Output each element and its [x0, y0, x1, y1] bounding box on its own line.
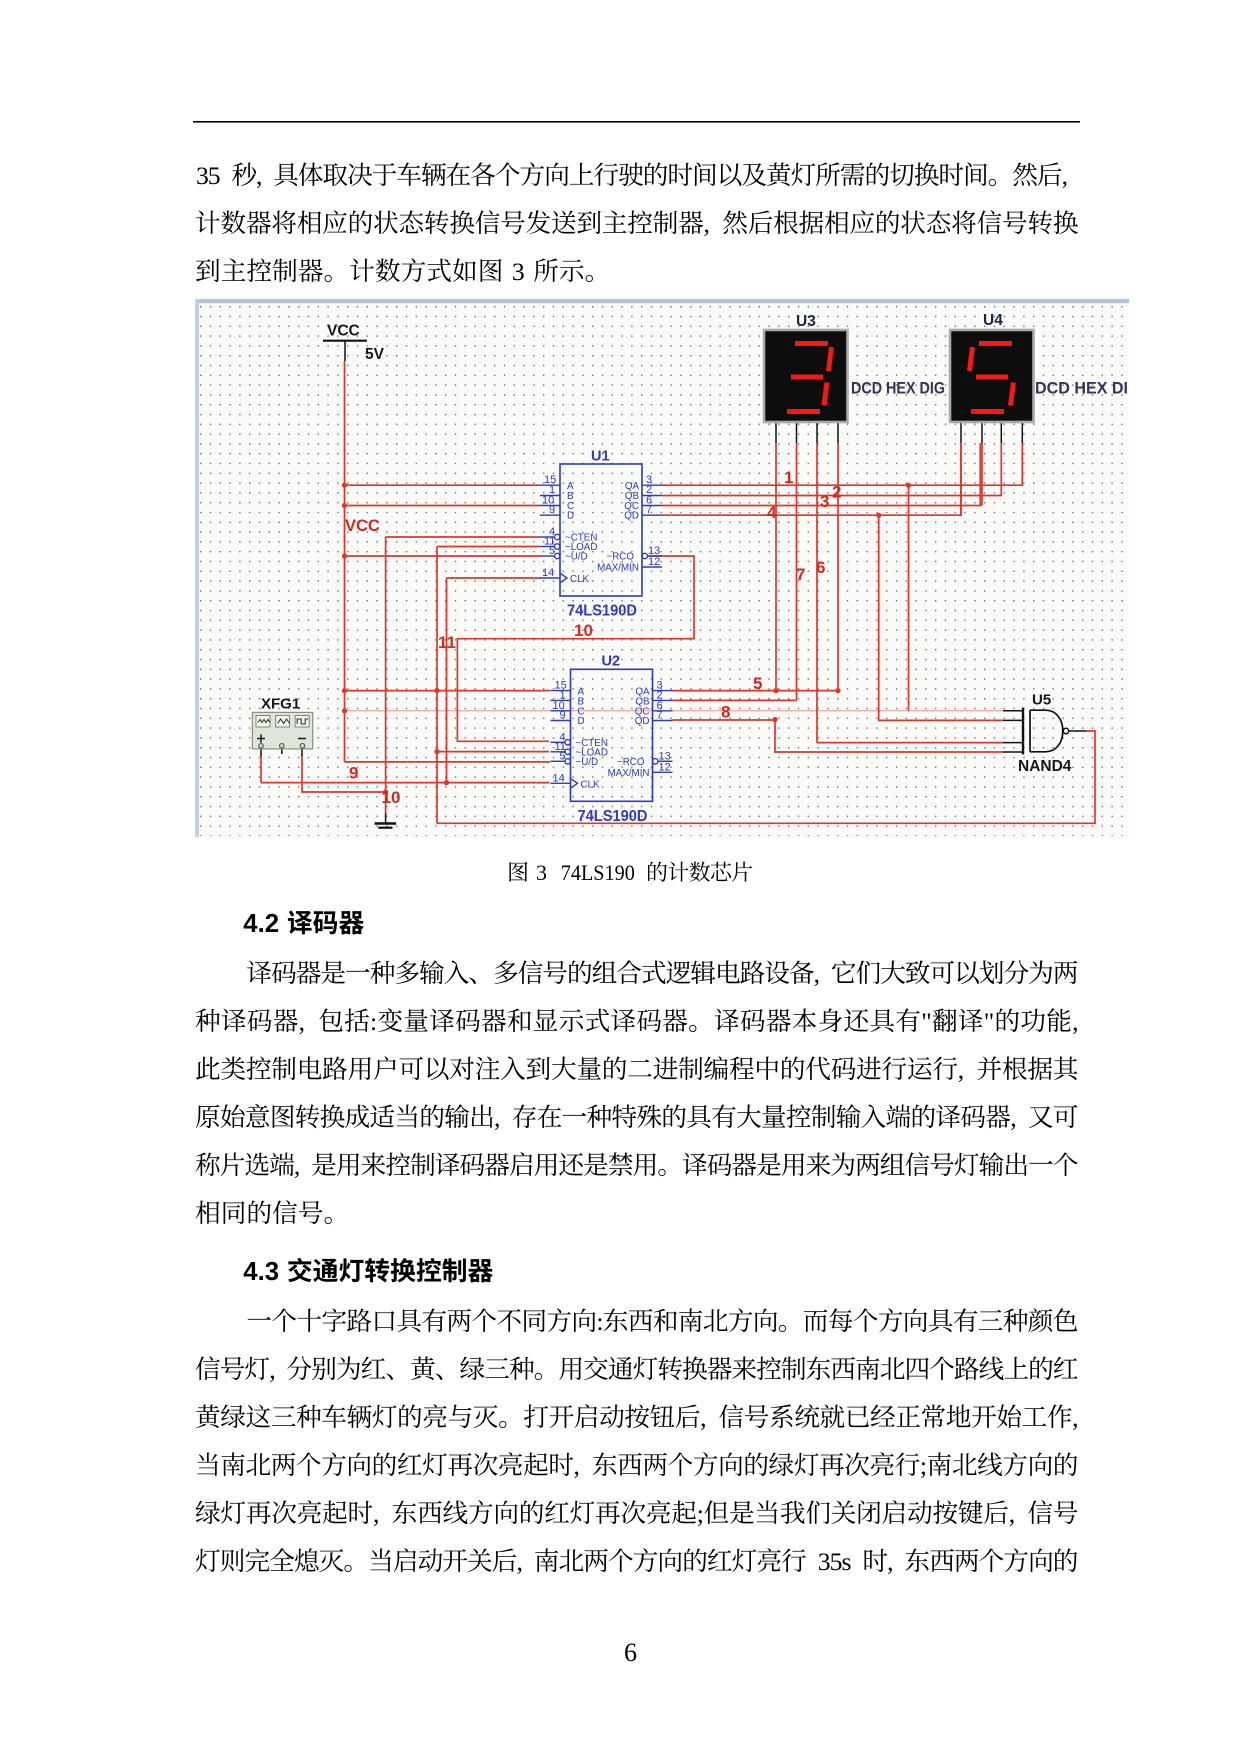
svg-text:D: D [567, 511, 574, 522]
svg-text:3: 3 [536, 860, 547, 885]
svg-text:MAX/MIN: MAX/MIN [597, 563, 639, 574]
svg-text:,: , [1072, 1007, 1078, 1036]
svg-text:1: 1 [784, 468, 793, 487]
svg-text:,: , [574, 1451, 580, 1480]
svg-text:5V: 5V [365, 346, 385, 363]
svg-text:;: ; [920, 1451, 927, 1480]
svg-text:74LS190D: 74LS190D [578, 808, 648, 825]
svg-text:,: , [1009, 1499, 1015, 1528]
svg-text:DCD HEX DI: DCD HEX DI [1035, 379, 1128, 398]
svg-text:U1: U1 [591, 449, 610, 465]
svg-text::: : [596, 1307, 603, 1336]
svg-text:7: 7 [796, 565, 805, 584]
svg-text:DCD HEX DIG: DCD HEX DIG [851, 379, 945, 398]
svg-text:14: 14 [553, 772, 565, 784]
svg-text:8: 8 [721, 703, 730, 722]
svg-text:~U/D: ~U/D [565, 552, 588, 563]
svg-text:,: , [373, 1499, 379, 1528]
svg-text:~RCO: ~RCO [617, 757, 645, 768]
svg-text:,: , [517, 1547, 523, 1576]
svg-text:MAX/MIN: MAX/MIN [608, 768, 650, 779]
svg-text:5: 5 [753, 674, 762, 693]
svg-text:~U/D: ~U/D [576, 757, 599, 768]
svg-text:3: 3 [265, 1258, 279, 1286]
svg-text:,: , [704, 209, 710, 238]
svg-text:4: 4 [243, 910, 258, 938]
svg-text:QD: QD [635, 716, 650, 727]
svg-text:.: . [258, 1258, 265, 1286]
svg-text:U2: U2 [602, 654, 621, 670]
svg-text:,: , [1072, 1403, 1078, 1432]
svg-text:D: D [578, 716, 585, 727]
svg-text:4: 4 [767, 503, 777, 522]
svg-text:CLK: CLK [570, 574, 590, 585]
svg-text:,: , [1062, 161, 1068, 190]
svg-text:2: 2 [265, 910, 279, 938]
svg-text:9: 9 [560, 710, 566, 722]
svg-text:5: 5 [549, 545, 555, 557]
svg-text:,: , [700, 1403, 706, 1432]
svg-text:QD: QD [624, 511, 639, 522]
svg-text:~RCO: ~RCO [607, 552, 635, 563]
svg-text:U5: U5 [1032, 692, 1051, 709]
svg-text:5: 5 [560, 750, 566, 762]
svg-text:,: , [294, 1151, 300, 1180]
svg-text:10: 10 [382, 788, 401, 807]
svg-text:,: , [299, 1007, 305, 1036]
svg-text:s: s [842, 1547, 852, 1576]
svg-text:9: 9 [549, 504, 555, 516]
svg-text:,: , [494, 1103, 500, 1132]
svg-text:,: , [958, 1055, 964, 1084]
svg-text:VCC: VCC [327, 323, 360, 340]
svg-text:U3: U3 [796, 313, 816, 330]
svg-text:4: 4 [243, 1258, 258, 1286]
svg-text:.: . [258, 910, 265, 938]
svg-text:,: , [814, 959, 820, 988]
svg-text:,: , [1010, 1103, 1016, 1132]
svg-text:10: 10 [574, 621, 593, 640]
svg-text:74LS190D: 74LS190D [567, 603, 637, 620]
svg-text:7: 7 [657, 710, 663, 722]
svg-text:3: 3 [512, 257, 525, 286]
svg-text:,: , [256, 161, 262, 190]
svg-text:": " [984, 1007, 995, 1036]
svg-text:CLK: CLK [581, 779, 601, 790]
svg-text:11: 11 [438, 633, 456, 652]
svg-text:;: ; [697, 1499, 704, 1528]
svg-text:,: , [269, 1355, 275, 1384]
svg-text:7: 7 [646, 504, 652, 516]
svg-text:VCC: VCC [345, 517, 380, 535]
svg-text:NAND4: NAND4 [1018, 758, 1072, 775]
svg-text:9: 9 [349, 764, 358, 783]
svg-text:12: 12 [659, 761, 671, 773]
svg-text:6: 6 [624, 1638, 637, 1667]
svg-text:U4: U4 [983, 312, 1003, 329]
svg-text:XFG1: XFG1 [261, 696, 300, 713]
svg-text:2: 2 [832, 483, 841, 502]
svg-text::: : [370, 1007, 377, 1036]
svg-text:5: 5 [208, 161, 221, 190]
svg-text:": " [921, 1007, 932, 1036]
svg-text:12: 12 [648, 556, 660, 568]
svg-text:74LS190: 74LS190 [561, 860, 635, 885]
svg-text:6: 6 [816, 558, 825, 577]
svg-text:3: 3 [820, 492, 829, 511]
svg-text:14: 14 [542, 567, 554, 579]
svg-text:,: , [887, 1547, 893, 1576]
